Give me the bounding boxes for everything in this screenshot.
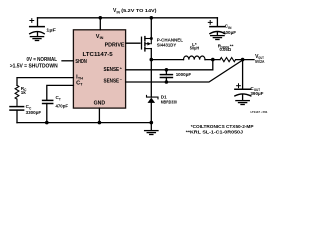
wire CIN drop [216, 18, 218, 26]
pin label SENSE- [104, 78, 123, 85]
svg-text:LTC1147-5: LTC1147-5 [83, 52, 113, 58]
wire SENSE+ [126, 60, 213, 70]
node GND rail junction [98, 121, 102, 125]
pin label CT [76, 81, 83, 87]
svg-text:SENSE: SENSE [104, 78, 120, 84]
label + of 1uF [30, 19, 34, 23]
label RC [21, 86, 27, 92]
label CT [56, 95, 61, 101]
label VIN (5.2V TO 14V) [113, 8, 157, 14]
ground under CIN [211, 36, 224, 40]
svg-text:>1.5V = SHUTDOWN: >1.5V = SHUTDOWN [10, 63, 58, 69]
wire PDRIVE to gate [126, 42, 140, 44]
svg-text:PDRIVE: PDRIVE [105, 42, 125, 48]
svg-text:SENSE: SENSE [104, 67, 120, 73]
label + of CIN [208, 21, 212, 25]
pin label ITH [76, 74, 83, 80]
transistor Q1 Si4431DY P-channel [142, 18, 153, 60]
svg-text:**KRL SL-1-C1-0R050J: **KRL SL-1-C1-0R050J [186, 130, 244, 135]
svg-text:1µF: 1µF [46, 28, 56, 34]
pin label VIN [96, 34, 104, 40]
svg-text:LT1147 • F01: LT1147 • F01 [251, 110, 268, 114]
svg-text:1k: 1k [21, 90, 27, 95]
svg-text:390µF: 390µF [250, 91, 263, 96]
wire bottom ground rail [17, 122, 151, 124]
op-amp U1 LTC1147-5 box [73, 30, 125, 108]
label CIN [225, 24, 232, 30]
diode D1 MBRD330 schottky [147, 95, 159, 122]
ground main [145, 131, 158, 135]
svg-text:100µF: 100µF [223, 30, 236, 35]
capacitor CIN 100uF [210, 27, 225, 36]
capacitor COUT 390uF [235, 89, 251, 100]
capacitor CT 470pF [43, 100, 53, 122]
wire SHDN [62, 60, 73, 62]
wire switch node to inductor [151, 59, 183, 61]
wire GND pin drop [98, 108, 100, 123]
svg-text:*COILTRONICS CTX50-2-MP: *COILTRONICS CTX50-2-MP [191, 124, 254, 129]
wire COUT drop [242, 60, 244, 89]
svg-text:Si4431DY: Si4431DY [157, 42, 177, 47]
node sense+ cap junction [165, 68, 169, 72]
wire SENSE- [126, 60, 243, 82]
label + of COUT [237, 84, 241, 88]
wire CT pin [47, 85, 74, 99]
pin label SENSE+ [104, 66, 123, 73]
node sense- cap junction [165, 80, 169, 84]
node VOUT junction [241, 58, 245, 62]
node MOSFET drain junction [150, 16, 154, 20]
svg-text:0V = NORMAL: 0V = NORMAL [27, 57, 58, 63]
svg-text:IN: IN [117, 10, 121, 14]
svg-text:0.05Ω: 0.05Ω [220, 47, 232, 52]
capacitor C2 1000pF [160, 70, 172, 82]
node sense+ riser junction [211, 58, 215, 62]
wire inductor to rsense [205, 59, 220, 61]
wire ITH pin [17, 78, 73, 86]
wire VIN pin [99, 18, 101, 30]
svg-text:50µH: 50µH [190, 46, 199, 51]
svg-text:3300pF: 3300pF [26, 110, 42, 115]
wire VIN rail [38, 17, 218, 19]
node diode rail junction [150, 121, 154, 125]
svg-text:1000pF: 1000pF [176, 72, 192, 77]
resistor RSENSE 0.05ohm [220, 58, 236, 62]
svg-text:T: T [59, 97, 61, 101]
wire diode branch [150, 60, 152, 98]
svg-text:MBRD330: MBRD330 [161, 99, 178, 104]
label VOUT [255, 54, 264, 60]
label COUT [250, 86, 260, 92]
label CC [26, 104, 32, 110]
svg-text:(5.2V TO 14V): (5.2V TO 14V) [121, 8, 157, 13]
svg-text:5V/2A: 5V/2A [255, 59, 265, 64]
inductor L1 50uH [184, 56, 206, 60]
svg-text:470pF: 470pF [56, 103, 69, 108]
wire rsense to vout [236, 59, 254, 61]
svg-text:GND: GND [94, 100, 106, 106]
node switch junction [150, 58, 154, 62]
capacitor CC 3300pF [10, 107, 24, 123]
capacitor C1 1uF [30, 18, 45, 36]
node CT rail junction [45, 121, 49, 125]
label RSENSE** [218, 43, 234, 49]
svg-text:IN: IN [100, 36, 104, 40]
svg-text:SHDN: SHDN [75, 59, 86, 65]
node VIN pin junction [99, 16, 103, 20]
ground under 1uF [30, 37, 43, 41]
wire rail to ground symbol [150, 123, 152, 131]
ground under COUT [236, 101, 249, 105]
resistor RC 1k [15, 85, 19, 106]
